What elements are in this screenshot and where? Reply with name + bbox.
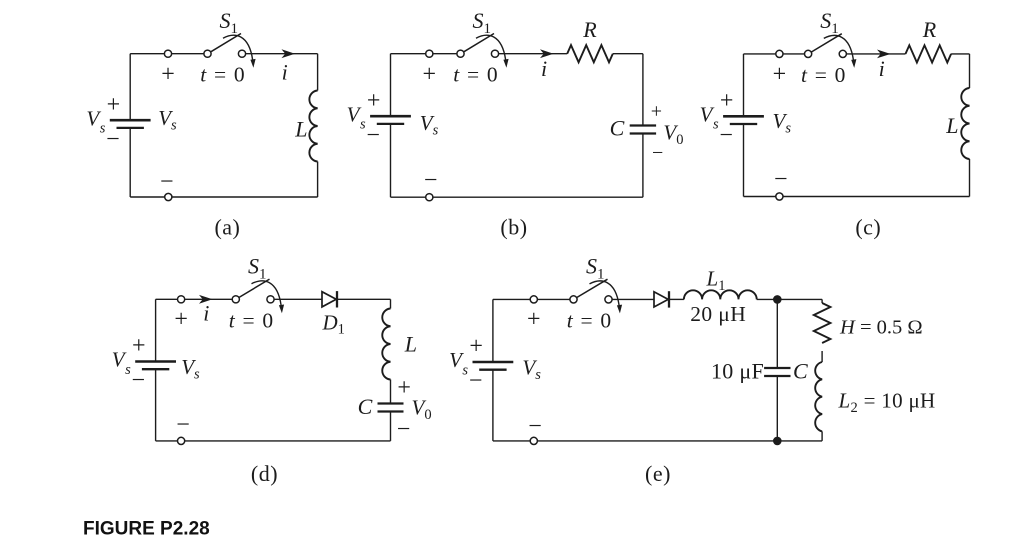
svg-text:R: R	[582, 17, 597, 42]
svg-text:20 μH: 20 μH	[690, 302, 746, 326]
svg-text:L: L	[294, 117, 307, 142]
svg-text:+: +	[720, 88, 734, 114]
svg-text:−: −	[774, 167, 788, 193]
svg-text:−: −	[366, 122, 380, 148]
svg-text:t = 0: t = 0	[801, 63, 847, 87]
svg-text:i: i	[541, 56, 547, 81]
svg-text:+: +	[423, 61, 437, 87]
svg-text:s: s	[360, 117, 366, 133]
svg-text:+: +	[527, 307, 541, 333]
svg-text:i: i	[282, 59, 288, 84]
svg-text:C: C	[610, 115, 625, 140]
svg-text:−: −	[469, 368, 483, 394]
svg-text:L: L	[945, 113, 958, 138]
svg-text:C: C	[793, 359, 808, 384]
svg-text:−: −	[424, 167, 438, 193]
svg-text:t = 0: t = 0	[567, 308, 613, 332]
svg-text:i: i	[879, 56, 885, 81]
svg-text:−: −	[176, 412, 190, 438]
svg-text:(a): (a)	[214, 214, 240, 239]
svg-text:t = 0: t = 0	[200, 63, 246, 87]
svg-text:−: −	[106, 126, 120, 152]
svg-text:+: +	[367, 88, 381, 114]
svg-text:C: C	[358, 394, 373, 419]
svg-text:s: s	[713, 117, 719, 133]
svg-text:t = 0: t = 0	[453, 63, 499, 87]
svg-text:+: +	[107, 92, 121, 118]
svg-text:R: R	[922, 17, 937, 42]
svg-text:(b): (b)	[500, 214, 527, 239]
svg-text:i: i	[203, 300, 209, 325]
svg-text:s: s	[100, 121, 106, 137]
svg-text:FIGURE P2.28: FIGURE P2.28	[83, 519, 210, 540]
svg-text:+: +	[651, 101, 662, 123]
svg-text:s: s	[462, 362, 468, 378]
svg-text:−: −	[528, 413, 542, 439]
svg-text:−: −	[397, 416, 411, 442]
svg-text:−: −	[160, 169, 174, 195]
svg-text:−: −	[652, 142, 663, 164]
svg-text:H = 0.5 Ω: H = 0.5 Ω	[839, 317, 923, 339]
svg-text:L: L	[404, 332, 417, 357]
svg-text:+: +	[161, 61, 175, 87]
svg-text:t = 0: t = 0	[229, 308, 275, 332]
svg-text:−: −	[719, 123, 733, 149]
svg-text:+: +	[469, 334, 483, 360]
svg-text:+: +	[174, 306, 188, 332]
svg-text:−: −	[132, 368, 146, 394]
svg-text:(d): (d)	[251, 461, 278, 486]
svg-text:+: +	[397, 375, 411, 401]
svg-text:+: +	[132, 333, 146, 359]
svg-text:(e): (e)	[645, 461, 671, 486]
svg-text:+: +	[773, 62, 787, 88]
svg-text:(c): (c)	[855, 214, 881, 239]
svg-text:s: s	[125, 362, 131, 378]
svg-text:10 μF: 10 μF	[711, 359, 764, 384]
